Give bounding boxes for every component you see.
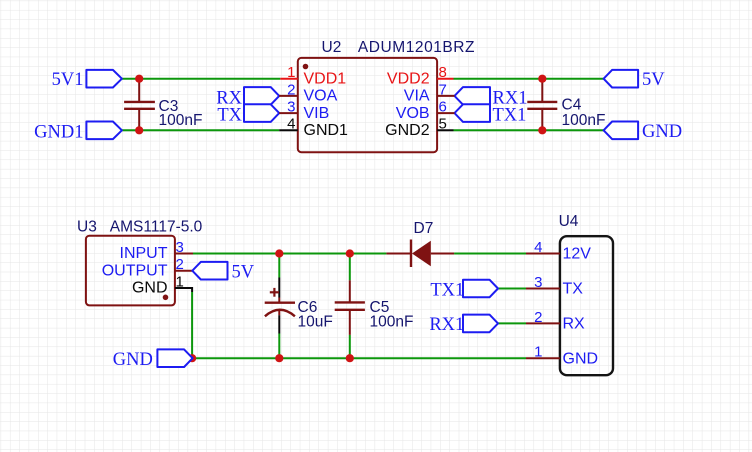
svg-text:1: 1 <box>534 344 542 361</box>
svg-text:VIA: VIA <box>404 88 430 105</box>
junction at C6 bottom <box>275 354 283 362</box>
port TX <box>217 104 279 125</box>
svg-text:RX: RX <box>563 316 586 333</box>
connector U4 box <box>560 236 613 375</box>
regulator U3 box <box>86 236 175 306</box>
svg-text:3: 3 <box>534 274 542 291</box>
port RX1 bottom <box>429 315 498 336</box>
port GND1 <box>34 122 122 143</box>
svg-text:VIB: VIB <box>304 105 330 122</box>
svg-text:2: 2 <box>534 309 542 326</box>
svg-text:VOA: VOA <box>304 88 338 105</box>
U4 pin 1 GND <box>526 344 598 368</box>
svg-text:7: 7 <box>439 81 447 98</box>
U2 pin 8 <box>387 64 454 87</box>
svg-text:10uF: 10uF <box>298 313 333 330</box>
svg-text:U3: U3 <box>77 219 97 236</box>
junction at C6 top <box>275 249 283 257</box>
svg-text:3: 3 <box>176 239 184 256</box>
wire 5V1 to U2 pin1 <box>122 78 280 80</box>
port 5V at U3 <box>192 262 254 282</box>
U2 pin 1 <box>280 64 346 87</box>
U3 pin1 dot <box>163 295 169 301</box>
svg-text:OUTPUT: OUTPUT <box>102 262 168 279</box>
svg-text:6: 6 <box>439 99 447 116</box>
wire top rail left <box>193 253 386 255</box>
diode D7 <box>386 220 454 267</box>
svg-text:GND: GND <box>132 280 168 297</box>
svg-text:TX1: TX1 <box>430 280 464 300</box>
svg-text:2: 2 <box>287 81 295 98</box>
svg-text:5: 5 <box>439 116 447 133</box>
capacitor C5 <box>335 254 414 359</box>
U2 pin 4 <box>279 116 348 139</box>
port TX1 top <box>455 104 527 125</box>
svg-text:100nF: 100nF <box>370 313 414 330</box>
wire GND1 to U2 pin4 <box>122 129 279 131</box>
U4 pin 2 RX <box>526 309 585 333</box>
junction at C4 top <box>538 75 546 83</box>
svg-text:1: 1 <box>287 64 295 81</box>
svg-text:AMS1117-5.0: AMS1117-5.0 <box>110 219 203 236</box>
capacitor C6 (polarized) <box>265 254 333 359</box>
junction at GND port <box>188 354 196 362</box>
wire TX1 to U4 pin3 <box>498 288 526 290</box>
port GND right <box>604 122 682 142</box>
svg-text:C4: C4 <box>562 96 582 113</box>
svg-text:GND1: GND1 <box>304 122 349 139</box>
svg-text:U4: U4 <box>559 213 579 230</box>
U3 pin 2 OUTPUT <box>102 256 193 279</box>
capacitor C4 <box>527 79 605 131</box>
svg-text:GND: GND <box>642 122 682 142</box>
svg-text:5V: 5V <box>642 70 665 90</box>
svg-text:TX1: TX1 <box>493 106 527 126</box>
port GND bottom <box>113 349 193 370</box>
port RX <box>216 87 279 108</box>
svg-text:VOB: VOB <box>396 105 430 122</box>
wire U3 GND down <box>191 292 193 358</box>
svg-text:GND: GND <box>563 350 599 367</box>
svg-text:1: 1 <box>176 273 184 290</box>
U4 pin 4 12V <box>526 239 591 263</box>
svg-text:INPUT: INPUT <box>120 245 168 262</box>
svg-text:2: 2 <box>176 256 184 273</box>
U2 pin 7 <box>404 81 455 104</box>
svg-text:TX: TX <box>563 281 584 298</box>
junction at C4 bottom <box>538 126 546 134</box>
U2 pin1 dot <box>303 64 309 70</box>
svg-text:8: 8 <box>439 64 447 81</box>
svg-text:5V1: 5V1 <box>52 70 84 90</box>
svg-text:TX: TX <box>217 106 242 126</box>
junction at C5 top <box>346 249 354 257</box>
svg-text:100nF: 100nF <box>159 112 203 129</box>
port TX1 bottom <box>430 280 498 301</box>
svg-text:D7: D7 <box>414 220 434 237</box>
U2 pin 3 <box>279 99 329 122</box>
svg-text:4: 4 <box>534 239 542 256</box>
port RX1 top <box>455 87 528 108</box>
U4 pin 3 TX <box>526 274 583 298</box>
junction at C3 bottom <box>135 126 143 134</box>
junction at C5 bottom <box>346 354 354 362</box>
svg-text:VDD1: VDD1 <box>304 71 347 88</box>
port 5V1 <box>52 70 122 90</box>
svg-text:3: 3 <box>287 99 295 116</box>
svg-text:12V: 12V <box>563 246 592 263</box>
svg-text:4: 4 <box>287 116 295 133</box>
U2 pin 2 <box>279 81 337 104</box>
port 5V right <box>604 70 666 90</box>
svg-text:GND2: GND2 <box>385 122 430 139</box>
svg-text:U2: U2 <box>322 39 342 56</box>
junction at C3 top <box>135 75 143 83</box>
U2 pin 5 <box>385 116 453 139</box>
wire RX1 to U4 pin2 <box>498 322 526 324</box>
svg-text:100nF: 100nF <box>562 112 606 129</box>
U3 pin 1 GND <box>132 273 192 296</box>
U3 pin 3 INPUT <box>120 239 194 262</box>
wire U2 pin8 to 5V <box>454 78 604 80</box>
wire top rail right of diode <box>454 253 526 255</box>
svg-text:RX1: RX1 <box>429 315 464 335</box>
U2 pin 6 <box>396 99 455 122</box>
svg-text:GND: GND <box>113 350 153 370</box>
svg-text:GND1: GND1 <box>34 122 83 142</box>
wire bottom rail <box>192 357 526 359</box>
svg-text:5V: 5V <box>232 262 255 282</box>
capacitor C3 <box>124 79 202 131</box>
wire U2 pin5 to GND <box>454 129 604 131</box>
IC U2 ADUM1201BRZ box <box>298 58 437 152</box>
svg-text:ADUM1201BRZ: ADUM1201BRZ <box>358 39 475 56</box>
svg-text:VDD2: VDD2 <box>387 71 430 88</box>
